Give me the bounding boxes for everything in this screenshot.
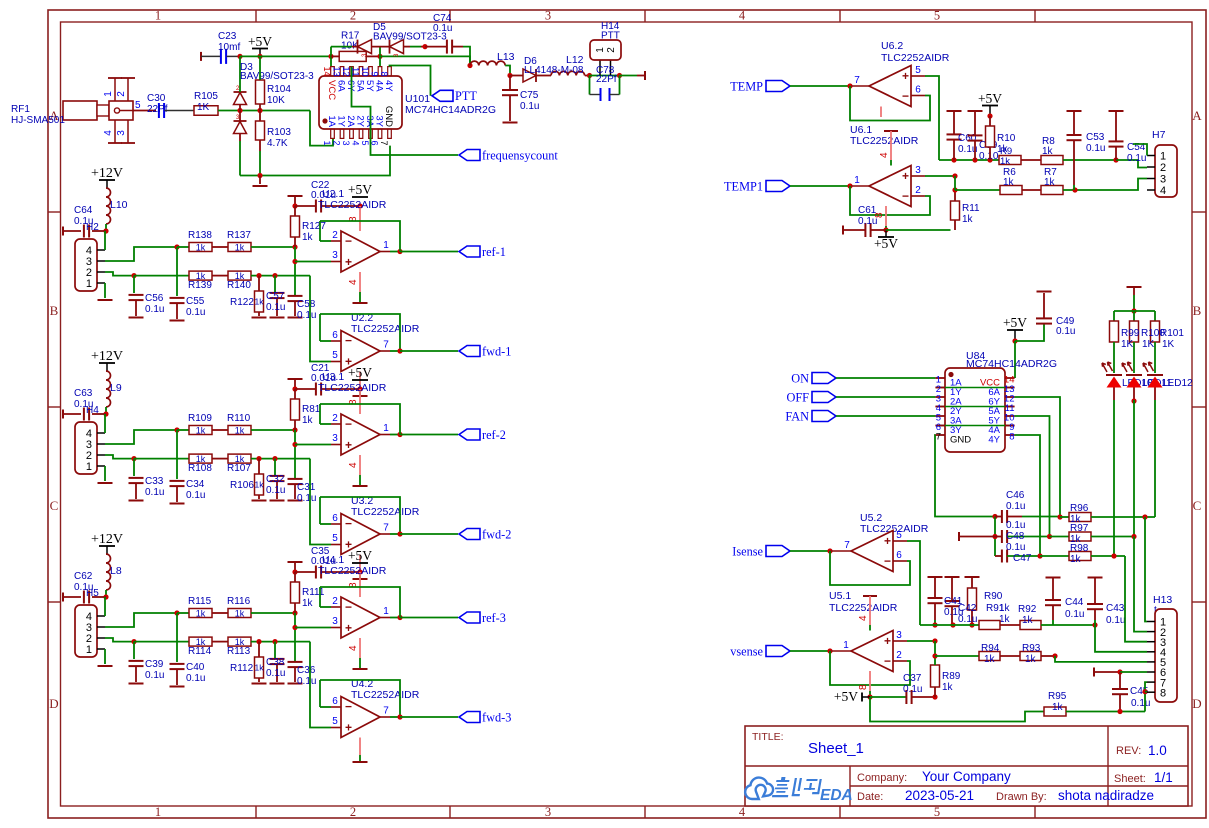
wire D3a anode	[239, 105, 241, 111]
wire diode branch	[331, 46, 352, 48]
U84 pin 3 stub	[935, 394, 945, 405]
wire to C74 junction	[410, 46, 421, 48]
svg-text:1k: 1k	[302, 232, 314, 243]
connector H5 body	[75, 605, 97, 657]
wire to LED rail	[1133, 295, 1135, 311]
capacitor C42	[945, 601, 960, 606]
svg-text:4: 4	[103, 130, 114, 136]
connector H14 pins	[600, 60, 611, 76]
ground bar C32	[270, 500, 285, 502]
svg-text:R108: R108	[188, 463, 212, 474]
svg-text:+: +	[345, 255, 352, 269]
C30 value	[147, 104, 168, 115]
wire cap rail vertical	[994, 517, 996, 557]
junction C42 / row A	[950, 622, 955, 627]
capacitor C22	[316, 200, 321, 213]
U2.2 pin 4 power	[359, 372, 361, 396]
R104 value	[267, 95, 285, 106]
svg-text:H5: H5	[86, 588, 99, 599]
R8 value	[1042, 146, 1054, 157]
svg-text:R105: R105	[194, 91, 218, 102]
wire pin3 to row1	[105, 613, 177, 627]
svg-text:0.1u: 0.1u	[186, 490, 205, 501]
C62 designator	[74, 571, 93, 582]
diode D5 B	[390, 40, 404, 54]
svg-text:1k: 1k	[255, 480, 265, 490]
wire ON to U84 pin1	[836, 377, 935, 379]
wire C54 top	[1115, 111, 1117, 141]
svg-text:+: +	[902, 69, 909, 83]
wire +5V to C37	[870, 696, 906, 698]
ground bar R106	[252, 500, 267, 502]
U2.1 pin 8 power	[348, 206, 360, 231]
wire R11 bottom	[954, 220, 956, 230]
wire C43 to row A	[1094, 620, 1096, 625]
svg-text:2: 2	[116, 91, 127, 97]
junction R90 / row A	[969, 622, 974, 627]
junction C45 / R95	[1117, 709, 1122, 714]
wire D3b to gnd rail	[239, 141, 241, 176]
R104 designator	[267, 84, 291, 95]
net flag ref-3	[459, 611, 506, 625]
svg-text:1k: 1k	[196, 425, 206, 435]
svg-text:8: 8	[858, 684, 869, 690]
svg-text:REV:: REV:	[1116, 745, 1141, 757]
svg-text:TLC2252AIDR: TLC2252AIDR	[829, 602, 898, 614]
R96 designator	[1070, 503, 1089, 514]
capacitor C63	[84, 408, 89, 421]
junction row1 / R111	[292, 610, 297, 615]
capacitor C32	[270, 476, 285, 481]
svg-text:−: −	[345, 417, 352, 431]
wire C41 top	[934, 577, 936, 598]
U84 value	[966, 358, 1057, 370]
wire R junction down	[294, 613, 296, 662]
svg-text:1/1: 1/1	[1154, 770, 1173, 785]
junction cap rail row2	[992, 534, 997, 539]
C33 designator	[145, 476, 164, 487]
wire to fwd-2 flag	[400, 533, 458, 535]
wire sensor row2 left	[955, 189, 1000, 191]
U101 pin 11 stub	[351, 67, 363, 77]
C57 designator	[266, 291, 285, 302]
svg-text:2: 2	[332, 413, 338, 424]
svg-text:C37: C37	[903, 673, 922, 684]
svg-text:C57: C57	[266, 291, 285, 302]
junction output U3.2	[397, 531, 402, 536]
svg-text:0.1u: 0.1u	[266, 485, 285, 496]
open end C63	[62, 410, 64, 419]
R105 value	[197, 102, 210, 113]
wire row B right	[1041, 655, 1055, 657]
wire row A mid	[1000, 624, 1020, 626]
wire across U84 row 1Y-6A	[936, 387, 1014, 389]
resistor R113	[228, 637, 251, 647]
svg-text:TLC2252AIDR: TLC2252AIDR	[351, 506, 420, 518]
svg-text:+: +	[884, 534, 891, 548]
svg-text:5: 5	[934, 9, 940, 23]
U5.1 value	[829, 602, 898, 614]
svg-text:C64: C64	[74, 205, 93, 216]
C42 designator	[958, 603, 977, 614]
U84 pin 14 stub	[1004, 375, 1015, 386]
wire H2 pin1 to gnd	[104, 283, 106, 298]
wire output 2	[390, 533, 400, 535]
wire feedback top U2.2	[320, 314, 400, 351]
U101 pin 1 stub	[322, 129, 334, 146]
svg-text:C23: C23	[218, 31, 237, 42]
U6.2 pin 6 lead	[911, 85, 925, 96]
op-amp U5.1	[851, 631, 893, 672]
net flag vsense	[730, 644, 790, 658]
svg-text:R93: R93	[1022, 643, 1041, 654]
wire to C47	[995, 555, 1002, 557]
svg-text:C33: C33	[145, 476, 164, 487]
RF1 pin 2	[116, 78, 135, 101]
junction row1 / C filter	[174, 244, 179, 249]
connector H2 body	[75, 239, 97, 291]
svg-text:4.7K: 4.7K	[267, 138, 288, 149]
C39 designator	[145, 659, 164, 670]
junction C78 right	[617, 73, 622, 78]
wire row B left	[935, 655, 979, 657]
resistor R8	[1041, 156, 1063, 165]
wire U6.1 feedback	[850, 186, 930, 215]
U4.2 pin 4 power	[359, 738, 361, 762]
open end C42	[945, 576, 960, 578]
svg-text:R138: R138	[188, 230, 212, 241]
R91 value	[999, 614, 1011, 625]
wire L12 out	[585, 75, 590, 77]
svg-text:0.1u: 0.1u	[1106, 615, 1125, 626]
wire H2 pin4 to coil	[104, 231, 106, 250]
wire cap gnd	[276, 298, 278, 316]
wire H13 pin2 up	[1134, 537, 1147, 632]
U84 label 5A	[988, 406, 1000, 417]
junction C45 top	[1117, 669, 1122, 674]
svg-text:C: C	[50, 498, 59, 513]
svg-text:R109: R109	[188, 413, 212, 424]
R81 value	[302, 415, 314, 426]
junction +5V U6.1	[883, 227, 888, 232]
svg-text:4: 4	[739, 9, 746, 23]
svg-text:+5V: +5V	[1003, 315, 1027, 330]
wire row A right	[1041, 624, 1095, 626]
open end LED rail	[1127, 286, 1142, 288]
svg-text:2Y: 2Y	[355, 115, 366, 127]
U4.2 pin 5 lead	[331, 716, 341, 728]
resistor R89	[931, 665, 940, 687]
svg-text:1k: 1k	[1000, 156, 1010, 167]
R103 value	[267, 138, 288, 149]
svg-text:1k: 1k	[984, 654, 996, 665]
svg-text:R114: R114	[188, 646, 212, 657]
svg-text:−: −	[884, 654, 891, 668]
svg-text:Sheet_1: Sheet_1	[808, 740, 864, 757]
svg-text:1A: 1A	[326, 115, 337, 127]
resistor R139	[189, 271, 212, 281]
U5.2 pin 5 lead	[893, 530, 907, 541]
R105 designator	[194, 91, 218, 102]
junction row3 / H13 pin3	[1111, 553, 1116, 558]
svg-text:4Y: 4Y	[383, 80, 394, 92]
C47 designator	[1013, 553, 1032, 564]
C63 value	[74, 399, 93, 410]
C75 value	[520, 101, 539, 112]
D5 designator	[373, 22, 386, 33]
svg-text:+: +	[345, 720, 352, 734]
ground bar U3.1 pin4	[353, 485, 368, 487]
capacitor C78	[601, 88, 610, 101]
C61 value	[858, 216, 877, 227]
wire row B mid	[1000, 655, 1020, 657]
open end C62	[62, 593, 64, 602]
svg-text:Company:: Company:	[857, 772, 907, 784]
wire row1 right	[1091, 516, 1155, 518]
R11 value	[962, 214, 974, 225]
svg-text:1k: 1k	[1022, 615, 1034, 626]
junction RF node / R103 R104	[257, 108, 262, 113]
wire row2 right	[251, 458, 310, 460]
wire +5V rail to R95	[870, 697, 1044, 722]
wire to R17	[331, 55, 339, 57]
svg-text:0.1u: 0.1u	[1086, 143, 1105, 154]
capacitor C37	[906, 690, 911, 704]
U101 label 2Y	[355, 115, 366, 127]
U3.2 pin 7 lead	[380, 523, 390, 535]
svg-text:TLC2252AIDR: TLC2252AIDR	[318, 565, 387, 577]
U84 label 4A	[988, 425, 1000, 436]
wire diode row to pin9	[379, 47, 381, 67]
svg-text:+5V: +5V	[834, 689, 858, 704]
svg-text:13: 13	[332, 66, 342, 76]
power +5V top	[248, 34, 272, 56]
diode D5 A	[358, 40, 372, 54]
net flag fwd-3	[459, 710, 511, 724]
wire row2 to H7 pin3	[1063, 179, 1147, 191]
wire row2 left	[1007, 536, 1049, 538]
wire C22 to +5V	[321, 205, 360, 207]
U3.2 pin 4 power	[359, 555, 361, 579]
svg-text:8: 8	[1160, 687, 1166, 699]
ground bar C34	[170, 503, 185, 505]
U84 label 3A	[950, 416, 962, 427]
svg-text:ref-3: ref-3	[482, 611, 506, 625]
H14 pin numbers	[595, 47, 617, 53]
svg-text:1: 1	[843, 640, 849, 651]
open end C23 left	[200, 52, 202, 61]
H13 pin 4	[1147, 647, 1166, 659]
wire LED11 to R97 row	[1133, 400, 1135, 537]
wire rail to R99	[1113, 311, 1115, 321]
wire FAN to U84 pin5	[836, 415, 935, 417]
C54 value	[1127, 153, 1146, 164]
wire H13 pin1 up	[1145, 517, 1147, 622]
wire Isense to node	[790, 550, 830, 552]
svg-text:−: −	[345, 699, 352, 713]
capacitor C31	[288, 479, 303, 484]
wire row2 mid	[212, 641, 228, 643]
wire to D5a	[352, 46, 357, 48]
svg-text:0.1u: 0.1u	[1006, 542, 1025, 553]
R111 value	[302, 598, 314, 609]
U84 label 2A	[950, 397, 962, 408]
wire row1 mid	[1021, 159, 1041, 161]
resistor R116	[228, 608, 251, 618]
junction row2 left	[131, 456, 136, 461]
wire R103 out	[259, 140, 261, 151]
net flag PTT	[432, 89, 477, 103]
power +5V U6.1	[874, 230, 898, 251]
capacitor C54	[1109, 141, 1124, 146]
junction row2 / R106	[256, 456, 261, 461]
svg-text:L10: L10	[110, 199, 128, 211]
inductor L13	[470, 61, 505, 65]
wire R89 bottom lead	[934, 687, 936, 697]
svg-text:6: 6	[332, 696, 338, 707]
junction R89 bottom	[932, 694, 937, 699]
wire to C33	[133, 459, 135, 476]
svg-text:0.1u: 0.1u	[266, 302, 285, 313]
svg-text:8: 8	[1009, 432, 1014, 443]
svg-text:6: 6	[915, 85, 921, 96]
wire C37 to R89	[912, 696, 935, 698]
svg-text:R107: R107	[227, 463, 251, 474]
resistor R111	[291, 582, 300, 603]
svg-text:Drawn By:: Drawn By:	[996, 791, 1047, 803]
svg-text:14: 14	[322, 66, 332, 76]
H13 designator	[1153, 594, 1172, 606]
svg-text:10: 10	[360, 66, 370, 76]
capacitor C49	[1036, 318, 1052, 323]
svg-text:−: −	[345, 600, 352, 614]
U101 pin 12 stub	[341, 66, 353, 76]
U101 label 3Y	[374, 115, 385, 127]
junction RF node / D3	[237, 108, 242, 113]
wire C23 to +5V rail	[227, 55, 241, 57]
capacitor C41	[928, 598, 943, 603]
svg-text:Date:: Date:	[857, 791, 883, 803]
svg-text:B: B	[50, 303, 59, 318]
U4.2 value	[351, 689, 420, 701]
wire tee to node	[294, 196, 296, 206]
resistor R101	[1151, 321, 1160, 342]
junction R111 top	[292, 569, 297, 574]
svg-text:7: 7	[936, 432, 941, 443]
wire feedback top U3.1	[320, 404, 400, 435]
svg-text:0.1u: 0.1u	[145, 670, 164, 681]
wire cap gnd	[294, 667, 296, 682]
wire rail to R101	[1154, 311, 1156, 321]
U84 pin 5 stub	[935, 413, 945, 424]
junction opamp +input	[292, 625, 297, 630]
svg-text:R96: R96	[1070, 503, 1089, 514]
junction L13 in	[467, 63, 472, 68]
U4.1 value	[318, 565, 387, 577]
RF1 designator	[11, 104, 30, 115]
wire C44 top	[1052, 578, 1054, 601]
svg-text:3Y: 3Y	[374, 115, 385, 127]
C55 designator	[186, 296, 205, 307]
wire rail to R100	[1133, 311, 1135, 321]
wire row2 mid	[212, 458, 228, 460]
C35 designator	[311, 546, 330, 557]
svg-text:−: −	[345, 234, 352, 248]
op-amp U3.2	[341, 514, 380, 555]
zone numbers top	[155, 9, 940, 23]
svg-text:1: 1	[103, 91, 114, 97]
connector RF1	[63, 101, 133, 120]
R112 designator	[230, 663, 254, 674]
wire R17 out	[366, 55, 380, 57]
wire R90 top	[971, 577, 973, 588]
capacitor C30	[159, 103, 164, 118]
wire H4 pin1 to gnd	[104, 466, 106, 481]
LED LED11	[1122, 362, 1142, 388]
C63 designator	[74, 388, 93, 399]
wire rail to diode row	[330, 47, 332, 57]
svg-text:+: +	[345, 438, 352, 452]
C59 designator	[979, 140, 998, 151]
svg-text:1k: 1k	[196, 608, 206, 618]
wire pin3 to row1	[105, 430, 177, 444]
H4 designator	[86, 405, 99, 416]
inductor L9	[106, 371, 111, 407]
capacitor C48	[1002, 530, 1007, 543]
C22 value	[311, 190, 336, 201]
U101 label 1Y	[336, 115, 347, 127]
wire node to C22	[295, 205, 316, 207]
open end pin6	[1093, 668, 1095, 677]
svg-text:R94: R94	[981, 643, 1000, 654]
wire C44 bottom	[1052, 605, 1054, 620]
H4 pin 3	[86, 439, 105, 451]
svg-text:0.1u: 0.1u	[186, 307, 205, 318]
U101 value	[405, 104, 496, 116]
U4.1 pin 4 power	[348, 638, 360, 668]
U84 label GND	[950, 435, 971, 446]
R127 designator	[302, 221, 326, 232]
svg-text:1k: 1k	[235, 608, 245, 618]
U101 label 3A	[364, 115, 375, 127]
op-amp U2.1	[341, 231, 380, 272]
svg-text:C55: C55	[186, 296, 205, 307]
svg-text:0.1u: 0.1u	[266, 668, 285, 679]
R137 designator	[227, 230, 251, 241]
svg-text:2023-05-21: 2023-05-21	[905, 788, 974, 803]
svg-text:7: 7	[854, 75, 860, 86]
capacitor C62	[84, 591, 89, 604]
wire R95 right	[1066, 711, 1145, 713]
power +12V block 1	[91, 166, 123, 188]
junction vsense	[827, 648, 832, 653]
wire row1 to H7 pin2	[1116, 160, 1147, 168]
ground bar H2 pin1	[98, 299, 113, 301]
wire row2	[134, 458, 189, 460]
R139 designator	[188, 280, 212, 291]
C44 designator	[1065, 597, 1084, 608]
U101 pin 6 stub	[370, 129, 382, 146]
junction C41 / row A	[932, 622, 937, 627]
C61 designator	[858, 205, 877, 216]
U5.2 designator	[860, 512, 882, 524]
wire to cap	[274, 276, 276, 293]
wire row2	[1050, 536, 1070, 538]
svg-text:+5V: +5V	[978, 91, 1002, 106]
C54 designator	[1127, 142, 1146, 153]
svg-text:1k: 1k	[235, 242, 245, 252]
C44 value	[1065, 609, 1084, 620]
